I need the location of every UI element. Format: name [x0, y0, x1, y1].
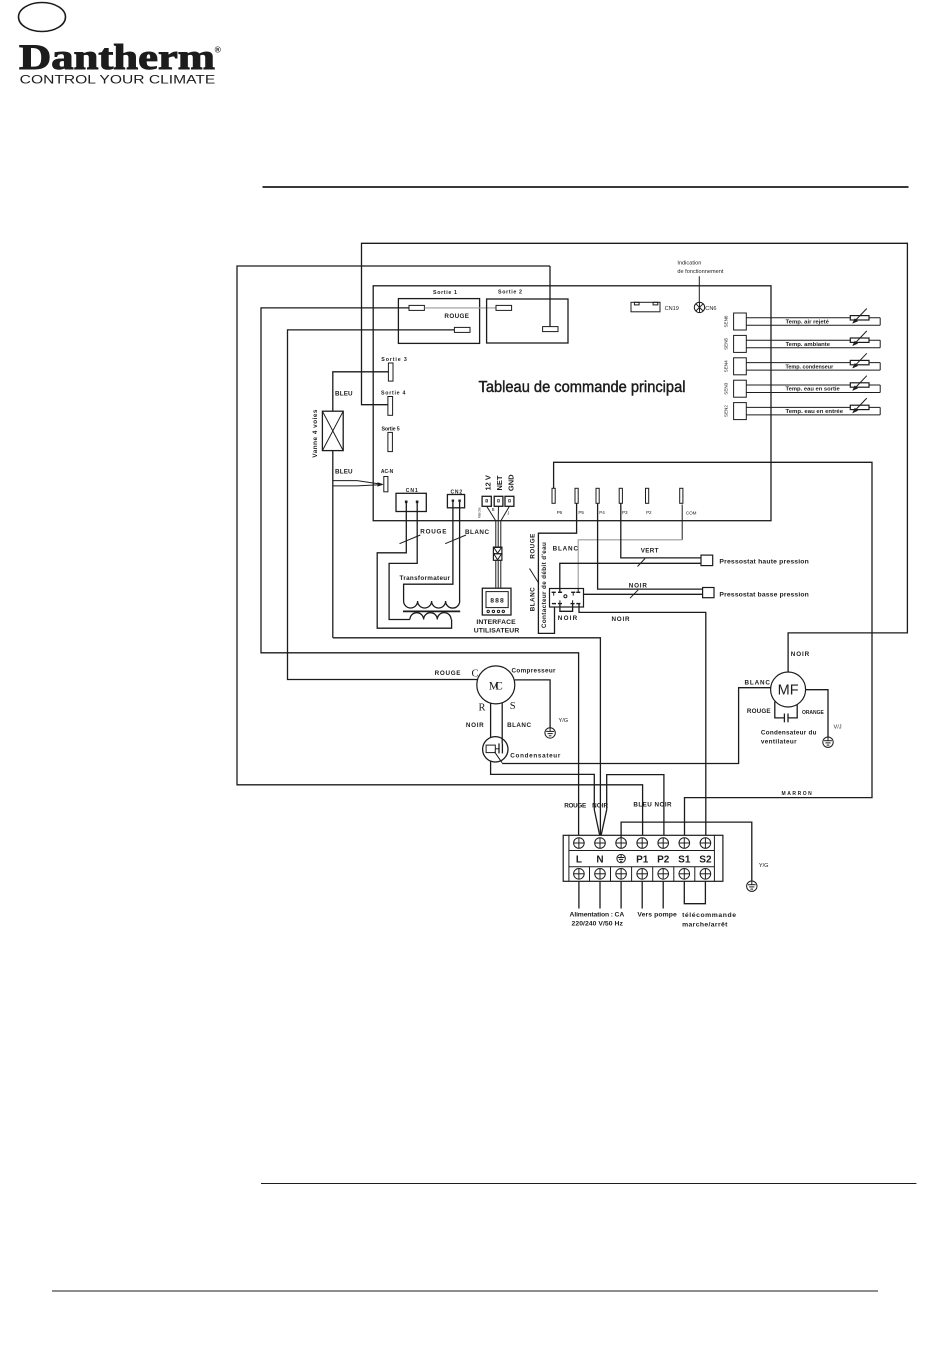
CN19 connector [631, 302, 660, 312]
slash VERT [638, 559, 646, 567]
svg-text:N: N [596, 854, 603, 865]
transformer core [403, 610, 460, 612]
svg-text:de fonctionnement: de fonctionnement [677, 269, 723, 275]
main control board rectangle [373, 286, 771, 521]
earth symbol (terminal) [747, 881, 757, 891]
svg-text:NOIR: NOIR [612, 616, 630, 623]
slash BLANC [445, 535, 466, 544]
pressostat haute connector [701, 555, 713, 566]
sensor SEN6 temp air rejete [724, 309, 881, 331]
wire S to condensateur capacitor [501, 703, 503, 744]
svg-text:L: L [576, 854, 582, 865]
svg-text:marche/arrêt: marche/arrêt [682, 921, 728, 928]
wire: Sortie1 lower to compressor C [288, 330, 478, 680]
Sortie 4 connector [388, 397, 393, 416]
sensor SEN5 temp ambiante [724, 331, 881, 353]
wire: down into Sortie2 connector [549, 266, 551, 327]
svg-text:BLANC: BLANC [745, 680, 771, 687]
svg-text:Transformateur: Transformateur [400, 575, 451, 582]
leader line to CN6 [698, 276, 700, 302]
slash NOIR [630, 590, 638, 598]
sensor SEN4 temp condenseur [724, 353, 881, 375]
svg-text:S: S [510, 701, 516, 712]
svg-text:BLANC: BLANC [530, 587, 537, 611]
fan capacitor plates [783, 714, 785, 723]
svg-text:888: 888 [490, 597, 504, 604]
svg-text:Pressostat basse pression: Pressostat basse pression [719, 591, 808, 598]
svg-text:®: ® [215, 45, 222, 55]
wire MF ORANGE to earth [806, 690, 828, 738]
svg-text:Condensateur du: Condensateur du [761, 730, 817, 737]
svg-text:Temp. ambiante: Temp. ambiante [786, 342, 831, 348]
svg-text:Y/G: Y/G [559, 718, 569, 724]
slash ROUGE wire [530, 569, 539, 584]
svg-text:NOIR: NOIR [466, 722, 484, 729]
connector CN2 [447, 495, 464, 508]
earth symbol (fan) [823, 737, 833, 747]
wire R to condensateur [490, 703, 492, 738]
svg-text:CONTROL YOUR CLIMATE: CONTROL YOUR CLIMATE [20, 73, 216, 87]
wire condensateur to MF BLANC [502, 688, 770, 764]
pressostat basse connector [703, 588, 714, 598]
wire vanne top to Sortie 3 [333, 372, 389, 411]
pin P5 [575, 488, 578, 503]
pin P3 [619, 488, 622, 503]
pin P4 [596, 488, 599, 503]
wire CN2 pin2 to transformer secondary right [459, 502, 461, 601]
svg-text:INTERFACE: INTERFACE [476, 619, 516, 626]
wire: left outer loop to terminal P1 (BLEU) [237, 266, 643, 838]
Sortie 2 connector lower [543, 327, 558, 332]
svg-text:SEN5: SEN5 [724, 337, 729, 349]
CN6 indicator symbol [694, 302, 704, 312]
svg-text:BLANC: BLANC [465, 529, 489, 536]
wire P3 to pressostat haute upper (VERT pair top) [621, 503, 701, 558]
wire relay pin to pressostat haute lower (VERT pair bottom) [560, 563, 701, 592]
svg-text:Compresseur: Compresseur [512, 667, 557, 674]
condensateur capacitor plates [495, 748, 499, 750]
fan motor MF circle [771, 672, 806, 707]
svg-text:SEN3: SEN3 [724, 382, 729, 394]
bus filter component [493, 547, 502, 560]
wire condensateur NOIR to terminal N [491, 761, 601, 838]
Sortie 1 connector lower [454, 327, 470, 332]
svg-text:Dantherm: Dantherm [19, 37, 215, 77]
svg-text:NOIR: NOIR [655, 801, 673, 808]
svg-text:V/J: V/J [834, 724, 842, 730]
fan capacitor loop [775, 702, 784, 718]
wire P6 to MARRON loop and S1 [554, 462, 872, 837]
svg-text:Tableau de commande principal: Tableau de commande principal [479, 379, 686, 396]
svg-text:BLEU: BLEU [633, 801, 652, 808]
svg-text:Sortie 2: Sortie 2 [498, 290, 522, 296]
earth glyph in label row [617, 854, 625, 862]
wire CN1 pin1 to transformer primary right [377, 503, 451, 628]
AC-N connector [384, 477, 388, 492]
svg-text:Temp. condenseur: Temp. condenseur [786, 364, 834, 370]
wire: Sortie1 upper to terminal L (ROUGE) [261, 308, 579, 838]
jumper S1-S2 below terminal [684, 881, 705, 903]
svg-text:Alimentation : CA: Alimentation : CA [570, 912, 625, 919]
arrow wire to AC-N [333, 481, 382, 485]
condensateur switch diagonal [495, 752, 503, 763]
interface utilisateur box [482, 588, 511, 615]
svg-text:Sortie 5: Sortie 5 [382, 427, 400, 433]
display bus wires upper [487, 506, 496, 547]
svg-text:P6: P6 [557, 510, 563, 515]
sensor SEN2 temp eau en entree [724, 398, 881, 420]
svg-text:AC-N: AC-N [381, 469, 394, 475]
svg-text:CN19: CN19 [665, 306, 679, 312]
condensateur circle [483, 737, 508, 762]
svg-text:SEN6: SEN6 [724, 315, 729, 327]
bottom horizontal rule 2 [52, 1290, 878, 1292]
vanne 4 voies coil box [322, 411, 343, 450]
condensateur relay box [486, 745, 495, 753]
svg-text:ORANGE: ORANGE [802, 710, 824, 716]
Sortie 1 box [398, 299, 479, 344]
svg-text:BLEU: BLEU [335, 469, 353, 476]
svg-text:ROUGE: ROUGE [420, 528, 446, 535]
Sortie 2 connector upper [496, 305, 512, 310]
display bus wires lower [495, 560, 497, 588]
svg-text:SEN4: SEN4 [724, 360, 729, 372]
svg-text:C: C [472, 669, 479, 680]
relay jumper U below [560, 604, 573, 612]
wire terminal earth to external earth [621, 822, 752, 881]
svg-text:Sortie 4: Sortie 4 [381, 391, 406, 397]
svg-text:R: R [479, 702, 486, 713]
svg-text:UTILISATEUR: UTILISATEUR [474, 628, 520, 635]
svg-text:VERT: VERT [641, 547, 659, 554]
Sortie 1 connector upper [409, 305, 424, 310]
terminal bottom stubs L N earth P1 P2 [579, 881, 663, 908]
svg-text:Vers pompe: Vers pompe [637, 912, 677, 919]
svg-text:Sortie 3: Sortie 3 [381, 357, 407, 363]
svg-text:Temp. eau en entrée: Temp. eau en entrée [786, 409, 844, 415]
wire relay to pressostat basse lower (NOIR pair bottom) [584, 593, 703, 595]
transformer primary winding [410, 613, 451, 620]
svg-text:NOIR: NOIR [592, 803, 608, 810]
Sortie 2 box [487, 299, 568, 343]
earth symbol (compressor) [545, 728, 555, 738]
svg-text:MF: MF [778, 683, 799, 699]
svg-text:Vanne 4 voies: Vanne 4 voies [312, 409, 319, 457]
grey wire Sortie1 to Sortie2 [424, 307, 496, 309]
contacteur relay box [550, 589, 584, 608]
Sortie 3 connector [388, 363, 393, 381]
slash ROUGE [400, 535, 421, 544]
svg-text:Contacteur de débit d'eau: Contacteur de débit d'eau [541, 542, 548, 628]
svg-text:P3: P3 [622, 510, 628, 515]
pin P6 [552, 488, 555, 503]
wire CN2 pin1 to transformer secondary left [404, 502, 453, 601]
terminal screws bottom row [574, 869, 711, 880]
svg-text:ROUGE: ROUGE [564, 803, 586, 810]
wire relay to S2 (NOIR) [579, 604, 706, 838]
svg-text:Pressostat haute pression: Pressostat haute pression [719, 558, 808, 565]
compressor MC circle [477, 666, 515, 704]
neutral wire AC-N run to terminal N [333, 638, 601, 838]
svg-text:MARRON: MARRON [782, 791, 813, 797]
relay pins top row [552, 591, 581, 593]
svg-text:12 V: 12 V [483, 475, 492, 490]
svg-text:BLANC: BLANC [553, 546, 579, 553]
relay coil mark o [564, 595, 567, 598]
svg-text:NOIR: NOIR [629, 583, 648, 590]
terminal screws top row [574, 838, 711, 849]
svg-text:Y/G: Y/G [759, 863, 769, 869]
wire CN1 pin2 to transformer primary left [389, 503, 417, 620]
svg-text:NOIR: NOIR [791, 651, 810, 658]
svg-text:Marche: Marche [478, 507, 482, 518]
svg-text:ROUGE: ROUGE [435, 670, 461, 677]
svg-text:COM: COM [686, 511, 697, 516]
pin P2 [646, 488, 649, 503]
svg-text:S2: S2 [699, 854, 712, 865]
wire COM to relay (grey BLANC) [681, 505, 683, 540]
svg-text:GND: GND [506, 474, 515, 491]
svg-text:P1: P1 [636, 854, 649, 865]
logo ellipse [19, 3, 66, 32]
svg-text:NOIR: NOIR [558, 615, 578, 622]
svg-text:P2: P2 [646, 510, 652, 515]
svg-text:CN6: CN6 [705, 306, 716, 312]
connector NET [494, 496, 503, 506]
pin COM [680, 488, 683, 503]
svg-text:télécommande: télécommande [682, 912, 736, 919]
svg-text:MC: MC [489, 680, 503, 692]
sensor SEN3 temp eau en sortie [724, 376, 881, 398]
svg-text:Temp. air rejeté: Temp. air rejeté [786, 320, 829, 326]
svg-text:P5: P5 [578, 510, 584, 515]
svg-text:J: J [507, 511, 509, 516]
svg-text:ROUGE: ROUGE [747, 708, 771, 715]
svg-text:ventilateur: ventilateur [761, 738, 797, 745]
svg-text:Condensateur: Condensateur [510, 752, 561, 759]
wire P5 to contacteur (ROUGE) [538, 503, 576, 633]
svg-text:ROUGE: ROUGE [530, 534, 537, 559]
connector CN1 [396, 493, 426, 511]
svg-text:BLEU: BLEU [335, 390, 353, 397]
wire compressor S terminal to earth [515, 680, 550, 728]
relay pins bottom row [552, 603, 581, 605]
svg-text:ROUGE: ROUGE [444, 313, 469, 320]
wire loop: Sortie 4 to outer top to MF NOIR [362, 243, 908, 672]
top horizontal rule [263, 186, 909, 188]
svg-text:SEN2: SEN2 [724, 405, 729, 417]
svg-text:220/240 V/50 Hz: 220/240 V/50 Hz [572, 920, 624, 927]
svg-text:Indication: Indication [677, 261, 701, 267]
svg-text:P4: P4 [599, 510, 605, 515]
wire vanne bottom down to neutral run [332, 451, 334, 638]
wire N bridge to terminal P2 [607, 775, 664, 838]
svg-text:P2: P2 [657, 854, 670, 865]
bottom horizontal rule 1 [261, 1183, 916, 1185]
Sortie 5 connector [388, 432, 393, 451]
svg-text:Sortie 1: Sortie 1 [433, 290, 457, 296]
terminal bottom cell dividers [590, 867, 695, 882]
svg-text:S1: S1 [678, 854, 691, 865]
connector 12V [482, 496, 491, 506]
interface buttons [487, 610, 489, 612]
svg-text:NET: NET [495, 475, 504, 490]
svg-text:B: B [492, 507, 495, 512]
connector GND [505, 496, 514, 506]
svg-text:BLANC: BLANC [507, 722, 531, 729]
wire P4 to pressostat basse upper (NOIR pair top) [598, 503, 703, 589]
terminal block body [563, 835, 723, 881]
transformer secondary winding [404, 601, 460, 608]
svg-text:Temp. eau en sortie: Temp. eau en sortie [786, 387, 840, 393]
